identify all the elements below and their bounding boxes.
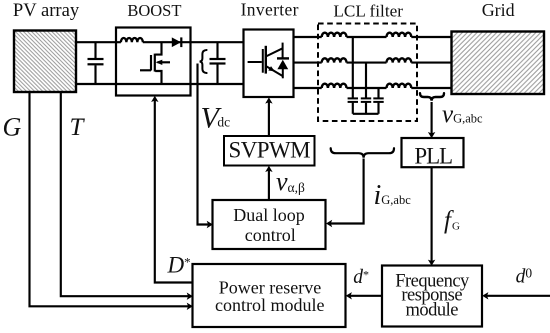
svg-text:Dual loop: Dual loop bbox=[233, 205, 305, 225]
svg-text:module: module bbox=[405, 300, 458, 320]
svg-text:Inverter: Inverter bbox=[241, 0, 299, 20]
svg-text:iG,abc: iG,abc bbox=[374, 180, 412, 211]
svg-text:SVPWM: SVPWM bbox=[228, 137, 310, 162]
svg-text:fG: fG bbox=[444, 207, 460, 234]
svg-text:d0: d0 bbox=[516, 266, 533, 288]
svg-text:PLL: PLL bbox=[414, 144, 452, 169]
svg-text:vα,β: vα,β bbox=[276, 167, 305, 196]
svg-text:PV array: PV array bbox=[13, 0, 80, 21]
svg-text:control: control bbox=[245, 225, 296, 245]
svg-text:D*: D* bbox=[167, 253, 191, 278]
svg-text:T: T bbox=[70, 114, 86, 141]
svg-text:Grid: Grid bbox=[482, 0, 515, 20]
svg-text:LCL filter: LCL filter bbox=[333, 1, 403, 20]
svg-text:G: G bbox=[3, 112, 22, 141]
svg-text:BOOST: BOOST bbox=[127, 1, 181, 20]
svg-text:Vdc: Vdc bbox=[201, 102, 231, 135]
svg-text:vG,abc: vG,abc bbox=[442, 101, 483, 128]
svg-text:control module: control module bbox=[215, 295, 324, 315]
svg-text:d*: d* bbox=[353, 267, 369, 288]
